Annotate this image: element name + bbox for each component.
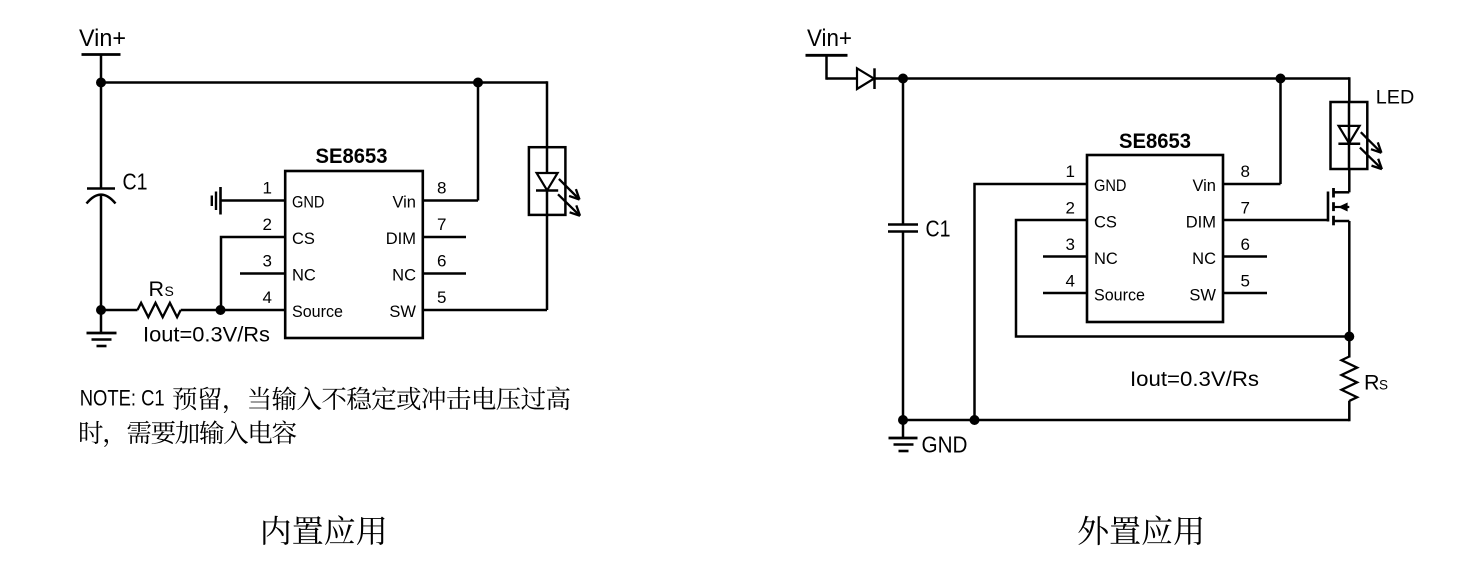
wire pin 3 NC stub	[240, 272, 286, 275]
junction dot pin1 loop (right)	[970, 415, 980, 425]
ground (left bottom)	[100, 310, 103, 333]
junction dot C1/Rs/ground (left)	[96, 305, 106, 315]
transistor Q1 source connection	[1334, 220, 1350, 223]
svg-text:NC: NC	[392, 267, 416, 285]
wire pin 7 DIM to gate (right)	[1223, 219, 1328, 222]
wire diode to junction	[875, 77, 904, 80]
LED D1 cathode wire (left)	[546, 191, 549, 311]
wire pin 2 CS loop to Rs top (right)	[1016, 220, 1350, 337]
svg-text:8: 8	[437, 179, 446, 198]
wire Vin+ to diode	[827, 77, 858, 80]
op-amp U2 SE8653 IC box (right)	[1087, 155, 1223, 322]
capacitor C1 (left) wire top	[100, 83, 103, 189]
junction dot GND (right)	[898, 415, 908, 425]
junction dot CS/Rs/source (right)	[1344, 332, 1354, 342]
wire Rs to bottom rail (right)	[1348, 401, 1351, 422]
caption built-in application (left)	[263, 515, 384, 545]
wire junction to Rs (right)	[1348, 337, 1351, 358]
svg-text:R: R	[1364, 371, 1380, 395]
svg-text:2: 2	[1066, 199, 1075, 218]
svg-text:GND: GND	[922, 432, 968, 458]
junction dot pin8 branch (left)	[473, 78, 483, 88]
wire pin 6 NC stub (right)	[1223, 255, 1267, 258]
svg-text:7: 7	[437, 215, 446, 234]
resistor Rs (right) vertical	[1342, 357, 1358, 401]
svg-text:R: R	[149, 277, 165, 301]
power rail bar Vin+ (right)	[806, 54, 848, 57]
svg-text:GND: GND	[1094, 177, 1127, 195]
svg-text:7: 7	[1241, 199, 1250, 218]
capacitor C1 (left) wire bottom	[100, 195, 103, 310]
svg-text:1: 1	[1066, 162, 1075, 181]
svg-text:5: 5	[437, 288, 446, 307]
ground at pin 1 (sideways)	[219, 187, 222, 215]
wire pin 5 SW stub (right)	[1223, 292, 1267, 295]
svg-text:NC: NC	[292, 267, 316, 285]
LED D1 cathode bar (left)	[536, 189, 558, 192]
junction dot pin8 branch (right)	[1276, 74, 1286, 84]
wire to resistor Rs (left)	[101, 309, 138, 312]
transistor Q1 MOSFET gate bar	[1327, 192, 1330, 222]
svg-text:6: 6	[437, 252, 446, 271]
svg-text:Source: Source	[1094, 287, 1145, 305]
LED D3 light arrows (right)	[1361, 132, 1382, 153]
svg-text:3: 3	[263, 252, 272, 271]
capacitor C1 (right) wire bottom	[902, 232, 905, 421]
op-amp U1 SE8653 IC box (left)	[285, 171, 423, 338]
LED D3 cathode wire (right)	[1348, 144, 1351, 169]
wire top rail (left)	[101, 81, 547, 84]
diode D2 input (right)	[857, 68, 874, 89]
LED D1 box (left)	[529, 147, 566, 215]
svg-text:1: 1	[263, 179, 272, 198]
svg-text:4: 4	[263, 288, 272, 307]
svg-text:CS: CS	[292, 230, 315, 248]
svg-text:NOTE: C1: NOTE: C1	[80, 386, 165, 411]
svg-text:Vin: Vin	[1192, 177, 1216, 195]
wire pin 8 Vin to top rail	[423, 199, 478, 202]
svg-text:4: 4	[1066, 272, 1075, 291]
svg-text:SW: SW	[1189, 287, 1216, 305]
junction dot Vin/C1 (left)	[96, 78, 106, 88]
svg-text:DIM: DIM	[386, 230, 416, 248]
wire Vin+ bar to top rail	[100, 55, 103, 85]
junction dot diode/C1 (right)	[898, 74, 908, 84]
svg-text:C1: C1	[926, 216, 951, 242]
svg-text:SE8653: SE8653	[1119, 129, 1191, 153]
wire pin 5 SW to LED	[423, 309, 547, 312]
wire pin 6 NC stub	[423, 272, 466, 275]
svg-text:Vin+: Vin+	[79, 25, 126, 52]
wire ground to pin 1 GND	[221, 199, 286, 202]
capacitor C1 (right) wire top	[902, 79, 905, 225]
LED D1 triangle (left)	[537, 173, 558, 190]
svg-text:8: 8	[1241, 162, 1250, 181]
junction dot CS branch on source wire	[216, 305, 226, 315]
svg-text:C1: C1	[123, 169, 148, 195]
note text line 2	[80, 420, 296, 447]
wire pin 1 GND loop (right)	[975, 184, 1088, 420]
capacitor C1 (left) top plate	[87, 187, 115, 190]
svg-text:Vin: Vin	[392, 194, 416, 212]
wire bottom rail (right)	[903, 419, 1350, 422]
LED D3 anode wire (right)	[1348, 102, 1351, 144]
wire pin 3 NC stub (right)	[1043, 255, 1088, 258]
wire Vin+ bar down	[825, 55, 828, 79]
svg-text:3: 3	[1066, 235, 1075, 254]
svg-text:2: 2	[263, 215, 272, 234]
wire top rail corner down to LED (left)	[546, 81, 549, 148]
svg-text:5: 5	[1241, 272, 1250, 291]
wire pin 8 Vin to top rail (right)	[1223, 183, 1281, 186]
wire Rs to Source pin 4	[181, 309, 286, 312]
svg-text:SE8653: SE8653	[316, 144, 388, 168]
transistor Q1 body arrow	[1334, 206, 1350, 208]
capacitor C1 (right) plates	[888, 223, 918, 226]
LED D1 anode wire (left)	[546, 147, 549, 174]
wire top rail (right)	[903, 77, 1349, 80]
svg-text:Iout=0.3V/Rs: Iout=0.3V/Rs	[143, 323, 270, 347]
capacitor C1 (left) curved bottom plate	[87, 195, 116, 204]
ground GND (right)	[902, 420, 905, 438]
svg-text:GND: GND	[292, 194, 325, 212]
wire pin 4 Source stub (right)	[1043, 292, 1088, 295]
LED D1 light arrows (left)	[559, 179, 580, 200]
resistor Rs (left)	[138, 303, 181, 317]
svg-text:Source: Source	[292, 303, 343, 321]
caption external application (right)	[1078, 515, 1202, 545]
power rail bar Vin+ (left)	[82, 53, 121, 56]
LED D3 cathode bar (right)	[1338, 143, 1360, 146]
svg-text:Iout=0.3V/Rs: Iout=0.3V/Rs	[1130, 367, 1259, 391]
LED D3 triangle (right)	[1339, 126, 1360, 143]
wire top rail corner down to LED (right)	[1348, 77, 1351, 103]
svg-text:Vin+: Vin+	[807, 25, 852, 52]
svg-text:NC: NC	[1094, 250, 1118, 268]
transistor Q1 MOSFET channel segments	[1332, 188, 1335, 198]
svg-text:SW: SW	[389, 303, 416, 321]
transistor Q1 drain connection	[1334, 191, 1350, 194]
LED D3 box (right)	[1331, 102, 1368, 169]
svg-text:LED: LED	[1376, 87, 1415, 108]
svg-text:6: 6	[1241, 235, 1250, 254]
svg-text:S: S	[165, 283, 174, 299]
svg-text:S: S	[1379, 378, 1388, 393]
wire pin 2 CS loop	[221, 237, 286, 310]
wire pin 7 DIM stub	[423, 236, 466, 239]
svg-text:CS: CS	[1094, 214, 1117, 232]
svg-text:DIM: DIM	[1186, 214, 1216, 232]
svg-text:NC: NC	[1192, 250, 1216, 268]
